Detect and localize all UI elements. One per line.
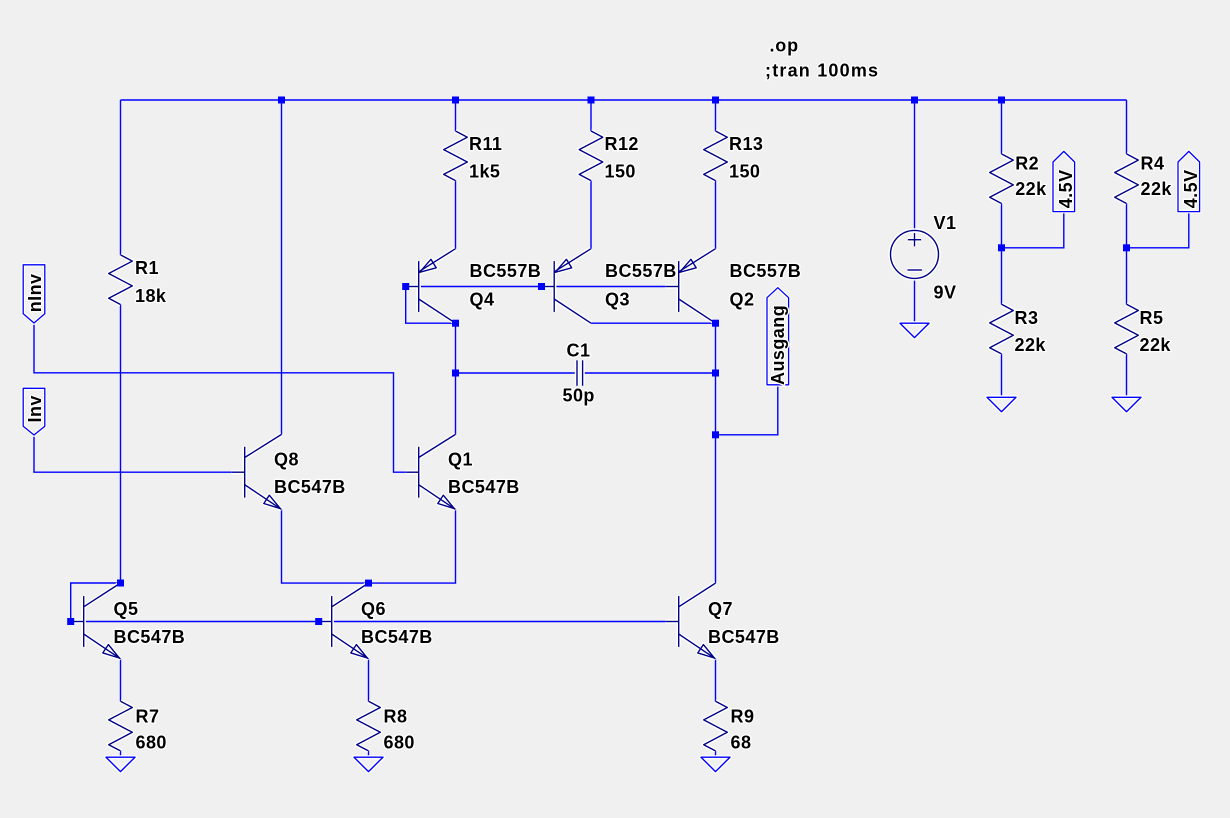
svg-text:R13: R13 xyxy=(729,134,763,154)
wire xyxy=(715,659,717,702)
wire xyxy=(590,100,592,131)
junction xyxy=(67,618,74,625)
wire xyxy=(34,435,232,472)
svg-text:BC547B: BC547B xyxy=(361,627,433,647)
svg-text:R11: R11 xyxy=(469,134,502,154)
flag 4.5V B xyxy=(1178,151,1200,211)
wire xyxy=(590,181,592,249)
junction xyxy=(452,97,459,104)
svg-text:R4: R4 xyxy=(1141,153,1165,173)
wire xyxy=(914,100,916,230)
ground xyxy=(900,323,929,337)
svg-text:BC557B: BC557B xyxy=(605,261,677,281)
svg-text:1k5: 1k5 xyxy=(469,162,500,182)
ground xyxy=(354,757,383,771)
wire xyxy=(120,659,122,702)
svg-text:R12: R12 xyxy=(605,134,639,154)
wire xyxy=(591,322,716,324)
svg-text:Inv: Inv xyxy=(25,395,45,422)
capacitor C1 xyxy=(577,360,583,386)
wire xyxy=(456,372,578,374)
wire xyxy=(1001,354,1003,397)
svg-text:Q8: Q8 xyxy=(274,450,299,470)
svg-text:22k: 22k xyxy=(1015,335,1047,355)
ground xyxy=(701,757,730,771)
wire xyxy=(1126,204,1128,248)
svg-text:4.5V: 4.5V xyxy=(1056,169,1076,208)
transistor Q3 xyxy=(541,249,591,324)
wire xyxy=(406,287,456,324)
wire xyxy=(583,372,716,374)
wire xyxy=(1001,204,1003,248)
flag 4.5V A xyxy=(1053,151,1075,211)
wire xyxy=(406,286,666,288)
wire xyxy=(455,100,457,131)
wire xyxy=(281,100,283,434)
svg-text:BC557B: BC557B xyxy=(470,261,542,281)
wire xyxy=(1126,248,1128,304)
transistor Q5 xyxy=(71,583,121,659)
svg-text:R8: R8 xyxy=(384,707,408,727)
wire xyxy=(715,181,717,249)
wire xyxy=(34,323,406,472)
svg-text:Q5: Q5 xyxy=(114,599,139,619)
resistor R9 xyxy=(704,701,728,751)
ground xyxy=(106,757,135,771)
junction xyxy=(588,97,595,104)
wire xyxy=(455,181,457,249)
junction xyxy=(278,97,285,104)
wire xyxy=(715,323,717,583)
resistor R1 xyxy=(109,255,133,305)
voltage source V1 xyxy=(891,230,939,278)
wire xyxy=(1002,212,1064,248)
svg-text:nInv: nInv xyxy=(25,273,45,312)
svg-text:4.5V: 4.5V xyxy=(1181,169,1201,208)
svg-text:.op: .op xyxy=(770,35,799,55)
ground xyxy=(987,397,1016,411)
svg-text:680: 680 xyxy=(384,732,415,752)
junction xyxy=(998,97,1005,104)
svg-text:22k: 22k xyxy=(1141,179,1173,199)
resistor R13 xyxy=(704,131,728,181)
svg-text:BC547B: BC547B xyxy=(708,627,780,647)
flag Inv xyxy=(23,388,45,435)
transistor Q8 xyxy=(232,434,282,509)
svg-text:50p: 50p xyxy=(563,386,595,406)
wire xyxy=(121,99,1127,101)
svg-text:150: 150 xyxy=(729,162,760,182)
wire xyxy=(71,583,121,622)
wire xyxy=(368,659,370,702)
svg-text:BC547B: BC547B xyxy=(274,477,346,497)
svg-text:68: 68 xyxy=(731,732,752,752)
wire xyxy=(1001,248,1003,304)
transistor Q7 xyxy=(666,583,716,659)
junction xyxy=(712,431,719,438)
wire xyxy=(1001,100,1003,154)
junction xyxy=(117,580,124,587)
resistor R11 xyxy=(444,131,468,181)
transistor Q1 xyxy=(406,434,456,509)
flag Ausgang xyxy=(767,288,789,385)
svg-text:R2: R2 xyxy=(1015,153,1039,173)
resistor R7 xyxy=(109,701,133,751)
transistor Q4 xyxy=(406,249,456,324)
svg-text:BC547B: BC547B xyxy=(114,627,186,647)
transistor Q2 xyxy=(666,249,716,324)
svg-text:BC557B: BC557B xyxy=(730,261,802,281)
junction xyxy=(1123,244,1130,251)
wire xyxy=(715,751,717,757)
junction xyxy=(998,244,1005,251)
wire xyxy=(120,305,122,584)
junction xyxy=(452,320,459,327)
svg-text:Q7: Q7 xyxy=(708,599,733,619)
wire xyxy=(455,323,457,434)
flag nInv xyxy=(23,265,45,323)
wire xyxy=(716,385,778,435)
svg-text:BC547B: BC547B xyxy=(448,477,520,497)
resistor R8 xyxy=(357,701,381,751)
svg-text:680: 680 xyxy=(136,732,167,752)
svg-text:Q4: Q4 xyxy=(470,290,495,310)
svg-text:22k: 22k xyxy=(1015,179,1047,199)
svg-text:R7: R7 xyxy=(136,707,160,727)
wire xyxy=(71,621,666,623)
wire xyxy=(282,509,456,583)
svg-text:V1: V1 xyxy=(934,213,957,233)
svg-text:150: 150 xyxy=(605,162,636,182)
wire xyxy=(368,751,370,757)
wire xyxy=(120,751,122,757)
wire xyxy=(120,100,122,255)
svg-text:Q6: Q6 xyxy=(361,599,386,619)
junction xyxy=(452,370,459,377)
wire xyxy=(1126,100,1128,154)
transistor Q6 xyxy=(319,583,369,659)
resistor R2 xyxy=(990,154,1014,204)
junction xyxy=(538,283,545,290)
svg-text:9V: 9V xyxy=(934,282,957,302)
svg-text:R1: R1 xyxy=(135,258,159,278)
junction xyxy=(712,320,719,327)
wire xyxy=(715,100,717,131)
svg-text:Q1: Q1 xyxy=(448,450,473,470)
junction xyxy=(712,97,719,104)
svg-text:C1: C1 xyxy=(567,340,591,360)
wire xyxy=(914,278,916,323)
junction xyxy=(315,618,322,625)
resistor R3 xyxy=(990,304,1014,354)
svg-text:R3: R3 xyxy=(1015,308,1039,328)
junction xyxy=(365,580,372,587)
wire xyxy=(1126,354,1128,397)
svg-text:Ausgang: Ausgang xyxy=(768,305,788,385)
svg-text:18k: 18k xyxy=(135,286,167,306)
resistor R4 xyxy=(1115,154,1139,204)
svg-text:R5: R5 xyxy=(1140,308,1164,328)
junction xyxy=(712,370,719,377)
svg-text:22k: 22k xyxy=(1140,335,1172,355)
svg-text:Q2: Q2 xyxy=(730,290,755,310)
wire xyxy=(1127,212,1189,248)
resistor R12 xyxy=(579,131,603,181)
junction xyxy=(911,97,918,104)
resistor R5 xyxy=(1115,304,1139,354)
junction xyxy=(402,283,409,290)
svg-text:;tran 100ms: ;tran 100ms xyxy=(765,61,879,81)
svg-text:R9: R9 xyxy=(731,707,755,727)
svg-text:Q3: Q3 xyxy=(605,290,630,310)
ground xyxy=(1112,397,1141,411)
